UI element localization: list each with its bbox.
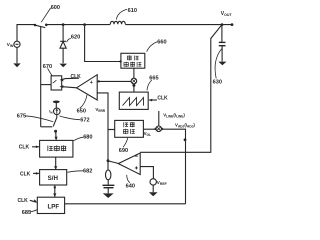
- svg-text:660: 660: [157, 40, 166, 46]
- svg-text:CLK: CLK: [20, 172, 31, 178]
- svg-text:600: 600: [51, 5, 60, 11]
- svg-text:VADJ(IADJ): VADJ(IADJ): [175, 123, 195, 129]
- svg-text:VGL: VGL: [144, 131, 151, 137]
- svg-text:670: 670: [43, 64, 52, 70]
- svg-text:+: +: [90, 80, 93, 86]
- svg-text:CLK: CLK: [157, 96, 168, 102]
- svg-text:VLINE(ILINE): VLINE(ILINE): [163, 112, 185, 118]
- svg-text:640: 640: [126, 183, 135, 189]
- svg-text:690: 690: [119, 148, 128, 154]
- svg-text:682: 682: [83, 169, 92, 175]
- svg-text:665: 665: [149, 76, 158, 82]
- svg-text:VOUT: VOUT: [221, 11, 233, 17]
- svg-text:620: 620: [71, 35, 80, 41]
- svg-text:CLK: CLK: [18, 198, 29, 204]
- svg-text:680: 680: [83, 134, 92, 140]
- svg-text:630: 630: [213, 80, 222, 86]
- svg-text:685: 685: [22, 210, 31, 216]
- svg-text:VREF: VREF: [157, 180, 167, 186]
- svg-text:672: 672: [80, 117, 89, 123]
- svg-text:675: 675: [17, 113, 26, 119]
- svg-text:CLK: CLK: [71, 74, 82, 80]
- svg-text:610: 610: [128, 8, 137, 14]
- svg-text:650: 650: [77, 109, 86, 115]
- svg-text:S/H: S/H: [48, 175, 59, 182]
- svg-text:VIN: VIN: [7, 42, 14, 48]
- svg-text:VERR: VERR: [95, 107, 105, 113]
- svg-text:LPF: LPF: [48, 203, 60, 210]
- svg-text:IM: IM: [49, 110, 53, 115]
- svg-text:CLK: CLK: [19, 145, 30, 151]
